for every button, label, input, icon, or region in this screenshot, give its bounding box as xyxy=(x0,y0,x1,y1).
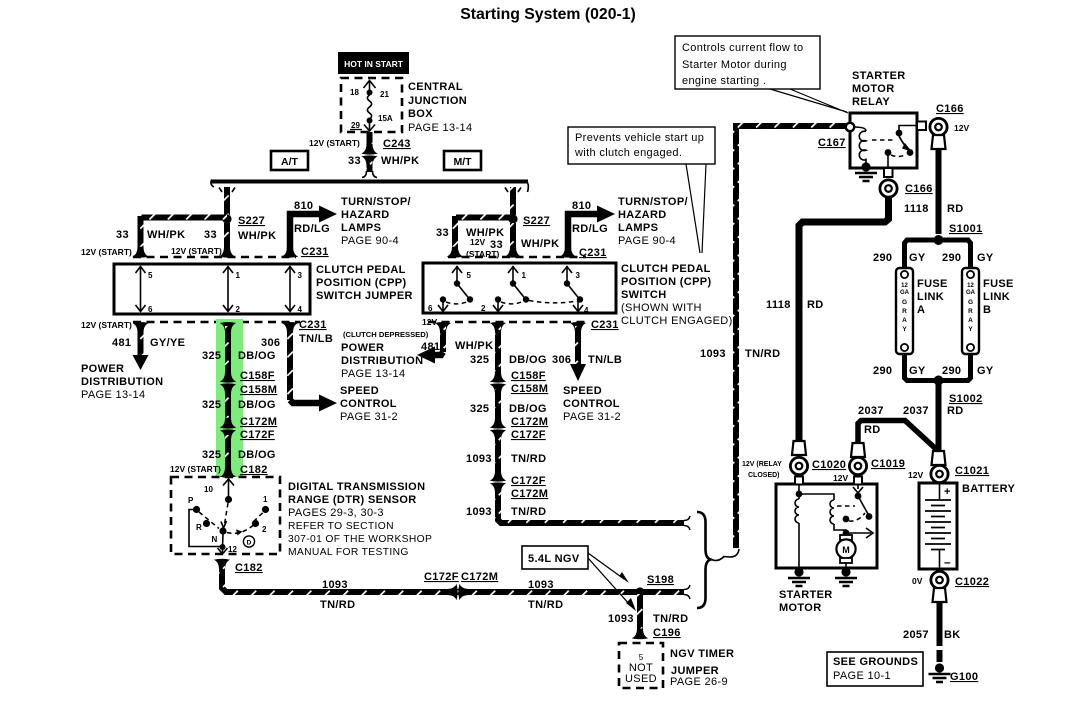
svg-text:C166: C166 xyxy=(905,183,933,195)
svg-text:C182: C182 xyxy=(235,562,263,574)
svg-text:C182: C182 xyxy=(240,464,268,476)
svg-text:CONTROL: CONTROL xyxy=(563,398,620,410)
svg-text:DB/OG: DB/OG xyxy=(238,399,276,411)
power distribution label M/T xyxy=(341,342,423,380)
svg-text:C158M: C158M xyxy=(240,384,277,396)
svg-text:S1001: S1001 xyxy=(949,223,983,235)
node S1001 xyxy=(934,223,983,245)
svg-text:PAGES 29-3, 30-3: PAGES 29-3, 30-3 xyxy=(288,507,384,519)
CPP jumper label xyxy=(316,264,413,302)
svg-text:2: 2 xyxy=(481,304,486,313)
starter ground right xyxy=(835,567,857,586)
svg-text:STARTER: STARTER xyxy=(779,589,833,601)
wires fuse links to S1002 xyxy=(873,355,994,381)
relay pin right xyxy=(917,122,926,131)
CPP switch box M/T xyxy=(423,263,616,313)
svg-text:6: 6 xyxy=(428,304,433,313)
connector C1020 xyxy=(790,441,846,475)
svg-text:C172F: C172F xyxy=(424,571,459,583)
wire 2057 BK xyxy=(903,588,961,662)
starter motor M xyxy=(836,535,855,568)
connector C172M C172F M/T xyxy=(490,416,548,441)
svg-text:P: P xyxy=(188,496,194,505)
svg-text:Starter Motor during: Starter Motor during xyxy=(682,59,787,71)
svg-text:5: 5 xyxy=(639,653,644,662)
svg-text:1093: 1093 xyxy=(700,348,726,360)
power distribution label A/T xyxy=(81,363,163,401)
svg-text:G: G xyxy=(968,299,973,306)
svg-text:481: 481 xyxy=(112,337,131,349)
svg-text:C231: C231 xyxy=(591,319,619,331)
svg-text:3: 3 xyxy=(298,271,303,280)
svg-text:TN/LB: TN/LB xyxy=(588,354,622,366)
svg-text:M/T: M/T xyxy=(453,156,472,168)
svg-text:290: 290 xyxy=(942,365,961,377)
svg-text:2: 2 xyxy=(236,305,241,314)
speed control label A/T xyxy=(340,385,398,423)
wire 1118 RD battery feed xyxy=(904,148,964,234)
svg-text:1093: 1093 xyxy=(466,506,492,518)
label 12V relay closed xyxy=(742,461,782,479)
svg-text:+: + xyxy=(944,486,950,498)
svg-text:RD: RD xyxy=(864,424,881,436)
svg-text:10: 10 xyxy=(204,485,213,494)
svg-text:2037: 2037 xyxy=(903,405,929,417)
svg-text:12V: 12V xyxy=(422,317,437,327)
svg-text:12: 12 xyxy=(901,283,908,289)
svg-text:R: R xyxy=(196,523,202,532)
connector C1021 xyxy=(908,451,989,483)
svg-text:TN/LB: TN/LB xyxy=(299,333,333,345)
svg-text:POWER: POWER xyxy=(341,342,384,354)
connector C172F C172M lower M/T xyxy=(490,471,548,500)
svg-text:2057: 2057 xyxy=(903,629,929,641)
see grounds box xyxy=(827,652,923,686)
fuse link B label xyxy=(983,278,1014,316)
wire S227 down A/T xyxy=(219,223,235,258)
svg-text:C231: C231 xyxy=(301,246,329,258)
svg-text:G: G xyxy=(902,299,907,306)
svg-text:Starting System (020-1): Starting System (020-1) xyxy=(460,6,636,23)
connector C172M C172F xyxy=(220,416,277,441)
svg-text:RD: RD xyxy=(947,203,964,215)
5.4L NGV box xyxy=(522,546,636,611)
svg-text:BOX: BOX xyxy=(408,108,433,120)
M/T box xyxy=(444,151,481,170)
svg-text:PAGE 10-1: PAGE 10-1 xyxy=(833,670,891,682)
svg-text:C196: C196 xyxy=(653,627,681,639)
svg-text:C172M: C172M xyxy=(240,416,277,428)
svg-text:290: 290 xyxy=(873,252,892,264)
svg-text:CENTRAL: CENTRAL xyxy=(408,81,463,93)
brace joining buses xyxy=(697,512,724,608)
svg-text:12V (START): 12V (START) xyxy=(171,246,222,256)
svg-text:1093: 1093 xyxy=(322,579,348,591)
central junction box xyxy=(341,78,402,132)
svg-text:S227: S227 xyxy=(238,215,265,227)
central junction box label xyxy=(408,81,472,134)
svg-text:B: B xyxy=(983,304,991,316)
svg-text:GA: GA xyxy=(966,290,976,296)
wire 325 DB/OG seg2 xyxy=(202,389,276,423)
svg-text:5: 5 xyxy=(148,271,153,280)
wire CJB to C243 xyxy=(367,132,373,147)
svg-text:33: 33 xyxy=(204,229,217,241)
svg-text:GY: GY xyxy=(977,252,994,264)
node S227 A/T xyxy=(222,214,276,242)
svg-text:HAZARD: HAZARD xyxy=(618,209,667,221)
svg-text:18: 18 xyxy=(350,88,359,97)
svg-text:12V: 12V xyxy=(954,123,969,133)
svg-text:RANGE (DTR) SENSOR: RANGE (DTR) SENSOR xyxy=(288,494,417,506)
svg-text:JUNCTION: JUNCTION xyxy=(408,95,467,107)
svg-text:USED: USED xyxy=(625,673,657,685)
svg-text:GA: GA xyxy=(900,290,910,296)
wire 2037 RD branch to C1019 xyxy=(858,405,936,449)
hot in start box xyxy=(338,52,409,74)
svg-text:C1020: C1020 xyxy=(812,459,846,471)
svg-text:PAGE 90-4: PAGE 90-4 xyxy=(618,235,676,247)
starter pin C1019 xyxy=(854,477,862,485)
svg-text:12V: 12V xyxy=(833,473,848,483)
svg-text:G100: G100 xyxy=(950,671,978,683)
svg-text:1093: 1093 xyxy=(528,579,554,591)
ground G100 xyxy=(929,663,979,683)
svg-text:RD/LG: RD/LG xyxy=(294,223,330,235)
svg-text:0V: 0V xyxy=(912,576,923,586)
svg-text:RELAY: RELAY xyxy=(852,96,890,108)
svg-text:21: 21 xyxy=(380,90,389,99)
svg-text:S227: S227 xyxy=(523,215,550,227)
svg-text:5: 5 xyxy=(467,271,472,280)
svg-text:SPEED: SPEED xyxy=(563,385,602,397)
fuse link A xyxy=(896,268,913,354)
svg-text:12V (START): 12V (START) xyxy=(170,464,221,474)
svg-text:306: 306 xyxy=(552,354,571,366)
connector line C231 M/T top xyxy=(448,256,586,259)
svg-text:C172M: C172M xyxy=(461,571,498,583)
starter motor relay label xyxy=(852,70,906,108)
svg-text:PAGE 31-2: PAGE 31-2 xyxy=(563,411,621,423)
wire 1093 TN/RD bottom bus from C182 xyxy=(222,566,690,611)
label C231 TN/LB A/T bottom xyxy=(299,319,333,345)
wire 33 WH/PK left M/T xyxy=(436,216,513,259)
starter motor relay U1 xyxy=(846,113,917,168)
svg-text:5.4L NGV: 5.4L NGV xyxy=(528,553,580,565)
turn/stop hazard lamps M/T xyxy=(618,196,688,247)
svg-text:RD: RD xyxy=(807,299,824,311)
jumper pin 3-4 xyxy=(285,266,303,314)
svg-text:GY/YE: GY/YE xyxy=(150,337,185,349)
svg-text:6: 6 xyxy=(148,305,153,314)
starter solenoid windings xyxy=(795,484,846,568)
CPP switch pole 3 xyxy=(562,266,583,303)
svg-text:1: 1 xyxy=(236,271,241,280)
wire 325 DB/OG M/T seg2 xyxy=(470,389,547,423)
svg-text:RD: RD xyxy=(947,405,964,417)
svg-text:C172F: C172F xyxy=(240,429,275,441)
svg-text:DB/OG: DB/OG xyxy=(238,449,276,461)
connector C243 xyxy=(309,138,411,166)
wire 1093 TN/RD M/T seg4 to bus xyxy=(466,488,690,530)
connector line C231 A/T top xyxy=(133,256,296,259)
svg-text:C243: C243 xyxy=(383,138,411,150)
svg-text:C158F: C158F xyxy=(240,370,275,382)
svg-text:C172F: C172F xyxy=(511,429,546,441)
CPP switch bottom contacts xyxy=(428,296,589,315)
svg-text:(SHOWN WITH: (SHOWN WITH xyxy=(621,302,702,314)
connector C182 below DTR xyxy=(214,559,263,574)
DTR internals xyxy=(188,479,269,554)
svg-text:325: 325 xyxy=(202,399,221,411)
wire 481 GY/YE A/T xyxy=(112,322,185,370)
svg-text:SWITCH: SWITCH xyxy=(621,289,666,301)
svg-text:C1021: C1021 xyxy=(955,465,989,477)
svg-text:WH/PK: WH/PK xyxy=(455,340,493,352)
wire RD S1002 down xyxy=(939,383,964,452)
DTR label xyxy=(288,481,432,558)
svg-text:12V: 12V xyxy=(908,470,923,480)
svg-text:POSITION (CPP): POSITION (CPP) xyxy=(621,276,711,288)
connector line C231 M/T bottom xyxy=(428,321,590,324)
svg-text:C172M: C172M xyxy=(511,488,548,500)
svg-text:DB/OG: DB/OG xyxy=(509,354,547,366)
svg-text:DISTRIBUTION: DISTRIBUTION xyxy=(341,355,423,367)
svg-text:Controls current flow to: Controls current flow to xyxy=(682,42,804,54)
svg-text:NGV TIMER: NGV TIMER xyxy=(670,648,734,660)
wire 306 TN/LB to speed control A/T xyxy=(261,322,337,412)
svg-text:DB/OG: DB/OG xyxy=(238,350,276,362)
jumper pin 1-2 xyxy=(223,266,241,314)
svg-text:TN/RD: TN/RD xyxy=(653,613,688,625)
svg-text:CLUTCH PEDAL: CLUTCH PEDAL xyxy=(316,264,406,276)
svg-text:A: A xyxy=(902,317,907,324)
connector C158F C158M M/T xyxy=(490,370,548,395)
svg-text:LAMPS: LAMPS xyxy=(618,222,658,234)
svg-text:M: M xyxy=(842,545,850,555)
svg-text:1: 1 xyxy=(263,495,268,504)
svg-text:4: 4 xyxy=(298,305,303,314)
connector C231 pin5 M/T xyxy=(447,247,463,258)
svg-text:WH/PK: WH/PK xyxy=(238,230,276,242)
wire M/T drop from bus xyxy=(505,187,521,215)
svg-text:325: 325 xyxy=(202,350,221,362)
wire 1118 RD relay output xyxy=(766,196,889,441)
svg-text:A/T: A/T xyxy=(281,156,299,168)
svg-text:12V (START): 12V (START) xyxy=(81,247,132,257)
svg-text:306: 306 xyxy=(261,337,280,349)
CPP switch label M/T xyxy=(621,263,733,327)
label 12V clutch depressed xyxy=(343,317,437,339)
svg-text:A: A xyxy=(968,317,973,324)
CPP switch pole 5 xyxy=(452,266,473,303)
svg-text:TURN/STOP/: TURN/STOP/ xyxy=(341,196,411,208)
svg-text:CONTROL: CONTROL xyxy=(340,398,397,410)
turn/stop hazard lamps A/T xyxy=(341,196,411,247)
svg-text:DISTRIBUTION: DISTRIBUTION xyxy=(81,376,163,388)
svg-text:S198: S198 xyxy=(647,574,674,586)
svg-text:1118: 1118 xyxy=(766,299,791,311)
svg-text:29: 29 xyxy=(351,121,360,130)
connector C166 battery feed xyxy=(930,103,970,149)
svg-text:PAGE 26-9: PAGE 26-9 xyxy=(670,676,728,688)
svg-text:33: 33 xyxy=(116,229,129,241)
svg-text:C167: C167 xyxy=(818,137,846,149)
svg-text:C158M: C158M xyxy=(511,383,548,395)
wire 481 WH/PK M/T xyxy=(417,322,493,364)
svg-text:PAGE 90-4: PAGE 90-4 xyxy=(341,235,399,247)
svg-text:290: 290 xyxy=(873,365,892,377)
wire 306 TN/LB M/T xyxy=(552,322,622,381)
main bus 1093 TN/RD vertical xyxy=(700,126,848,557)
svg-text:HOT IN START: HOT IN START xyxy=(344,59,404,69)
svg-text:325: 325 xyxy=(470,403,489,415)
svg-text:Y: Y xyxy=(902,326,907,333)
svg-text:STARTER: STARTER xyxy=(852,70,906,82)
connector C231 pin5 A/T xyxy=(132,247,148,258)
callout controls current flow xyxy=(675,36,848,113)
svg-text:Y: Y xyxy=(968,326,973,333)
svg-text:33: 33 xyxy=(348,155,361,167)
svg-text:RD/LG: RD/LG xyxy=(572,223,608,235)
svg-text:PAGE 31-2: PAGE 31-2 xyxy=(340,411,398,423)
wire 1093 TN/RD M/T seg3 xyxy=(466,435,546,476)
svg-text:MOTOR: MOTOR xyxy=(779,602,822,614)
svg-text:PAGE 13-14: PAGE 13-14 xyxy=(81,389,145,401)
relay pin bottom xyxy=(884,168,893,177)
node S227 M/T xyxy=(508,214,559,250)
svg-text:FUSE: FUSE xyxy=(983,278,1014,290)
svg-text:TN/RD: TN/RD xyxy=(511,506,546,518)
wire 810 RD/LG arrow M/T xyxy=(560,200,615,258)
svg-text:C231: C231 xyxy=(299,319,327,331)
fuse 21 15A xyxy=(350,81,393,132)
svg-text:POWER: POWER xyxy=(81,363,124,375)
svg-text:C158F: C158F xyxy=(511,370,546,382)
svg-text:PAGE 13-14: PAGE 13-14 xyxy=(408,122,472,134)
NGV not used box xyxy=(619,643,663,688)
svg-text:TN/RD: TN/RD xyxy=(320,599,355,611)
labels 1093 TN/RD right of bus connector xyxy=(528,579,563,611)
starter motor label xyxy=(779,589,833,614)
svg-text:N: N xyxy=(212,535,218,544)
wire 325 DB/OG seg1 xyxy=(202,322,276,377)
jumper pin 5-6 xyxy=(136,266,154,314)
wire 33 WH/PK left A/T xyxy=(116,216,227,256)
svg-text:BK: BK xyxy=(944,629,961,641)
node S1002 xyxy=(934,376,983,406)
svg-text:LINK: LINK xyxy=(983,291,1010,303)
svg-text:15A: 15A xyxy=(378,114,393,123)
svg-text:with clutch engaged.: with clutch engaged. xyxy=(574,147,682,159)
svg-text:TN/RD: TN/RD xyxy=(745,348,780,360)
svg-text:1: 1 xyxy=(522,271,527,280)
starter pin C1020 xyxy=(795,477,803,485)
svg-text:GY: GY xyxy=(977,365,994,377)
svg-text:810: 810 xyxy=(572,200,591,212)
relay ground xyxy=(855,162,877,181)
A/T box xyxy=(271,151,308,170)
bus wire xyxy=(211,180,528,193)
svg-text:Prevents vehicle start up: Prevents vehicle start up xyxy=(575,132,704,144)
svg-text:C1022: C1022 xyxy=(955,576,989,588)
svg-text:325: 325 xyxy=(202,449,221,461)
svg-text:4: 4 xyxy=(584,306,589,315)
connector C1019 xyxy=(833,443,905,483)
speed control label M/T xyxy=(563,385,621,423)
svg-text:(CLUTCH DEPRESSED): (CLUTCH DEPRESSED) xyxy=(343,330,429,339)
svg-text:3: 3 xyxy=(576,271,581,280)
svg-text:BATTERY: BATTERY xyxy=(962,483,1015,495)
connector C158F C158M xyxy=(220,370,277,396)
svg-text:WH/PK: WH/PK xyxy=(521,238,559,250)
fuse link B xyxy=(962,268,979,354)
svg-text:GY: GY xyxy=(909,365,926,377)
NGV timer jumper label xyxy=(670,648,734,688)
svg-text:–: – xyxy=(944,555,951,569)
svg-text:307-01 OF THE WORKSHOP: 307-01 OF THE WORKSHOP xyxy=(288,534,432,545)
svg-text:SPEED: SPEED xyxy=(340,385,379,397)
wire A/T drop from bus xyxy=(219,187,235,215)
svg-text:12: 12 xyxy=(967,283,974,289)
svg-text:12V: 12V xyxy=(470,237,485,247)
svg-text:SWITCH JUMPER: SWITCH JUMPER xyxy=(316,290,413,302)
connector line C231 A/T bottom xyxy=(133,321,300,324)
svg-text:engine starting .: engine starting . xyxy=(682,75,766,87)
svg-text:12: 12 xyxy=(228,545,237,554)
wires S1001 to fuse links xyxy=(873,240,994,267)
connector C166 relay output xyxy=(880,180,933,197)
connector C172F C172M on bus xyxy=(424,571,498,600)
battery xyxy=(919,483,1015,569)
CPP switch jumper box A/T xyxy=(114,264,310,314)
svg-text:WH/PK: WH/PK xyxy=(147,229,185,241)
svg-text:R: R xyxy=(902,308,907,315)
starter ground left xyxy=(788,567,810,586)
svg-text:2: 2 xyxy=(262,525,267,534)
svg-text:POSITION (CPP): POSITION (CPP) xyxy=(316,277,406,289)
svg-text:325: 325 xyxy=(470,354,489,366)
svg-text:LAMPS: LAMPS xyxy=(341,222,381,234)
wire 1093 TN/RD to C196 xyxy=(608,594,688,639)
svg-text:DIGITAL TRANSMISSION: DIGITAL TRANSMISSION xyxy=(288,481,425,493)
svg-text:290: 290 xyxy=(942,252,961,264)
callout prevents vehicle start xyxy=(568,127,715,253)
svg-text:A: A xyxy=(917,304,925,316)
svg-text:SEE GROUNDS: SEE GROUNDS xyxy=(833,656,918,668)
svg-text:481: 481 xyxy=(421,341,440,353)
connector C1022 xyxy=(912,571,989,588)
svg-text:1093: 1093 xyxy=(466,453,492,465)
svg-text:PAGE 13-14: PAGE 13-14 xyxy=(341,368,405,380)
svg-text:CLUTCH PEDAL: CLUTCH PEDAL xyxy=(621,263,711,275)
svg-text:12V (RELAY: 12V (RELAY xyxy=(742,461,782,468)
wire 325 DB/OG M/T seg1 xyxy=(470,322,547,377)
svg-text:REFER TO SECTION: REFER TO SECTION xyxy=(288,521,394,532)
starter motor box xyxy=(776,484,877,568)
svg-text:1118: 1118 xyxy=(904,203,929,215)
wire 810 RD/LG arrow A/T xyxy=(282,200,337,258)
wire C243 to bus xyxy=(348,155,419,178)
svg-text:S1002: S1002 xyxy=(949,393,983,405)
svg-text:DB/OG: DB/OG xyxy=(509,403,547,415)
svg-text:WH/PK: WH/PK xyxy=(381,155,419,167)
svg-text:LINK: LINK xyxy=(917,291,944,303)
svg-text:C1019: C1019 xyxy=(871,458,905,470)
svg-text:C172M: C172M xyxy=(511,416,548,428)
svg-text:810: 810 xyxy=(294,200,313,212)
svg-text:D: D xyxy=(247,540,252,547)
